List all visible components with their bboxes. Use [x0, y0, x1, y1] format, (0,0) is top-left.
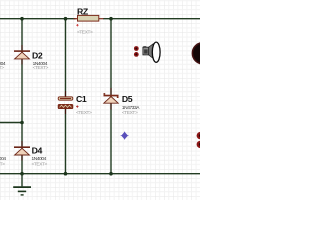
- svg-text:1N4004: 1N4004: [32, 156, 47, 162]
- wire capacitor column upper: [65, 19, 67, 97]
- wire zener column: [110, 19, 112, 174]
- wire top rail left: [0, 18, 76, 20]
- zener diode D5: [104, 88, 119, 110]
- svg-text:<TEXT>: <TEXT>: [33, 65, 49, 71]
- diode D2: [14, 45, 30, 65]
- svg-text:<TEXT>: <TEXT>: [0, 161, 5, 167]
- junction (65.5,18.7): [64, 17, 68, 21]
- svg-text:C1: C1: [76, 94, 87, 104]
- ground: [13, 174, 31, 195]
- marker + C1: [76, 105, 78, 107]
- svg-text:<TEXT>: <TEXT>: [77, 30, 93, 36]
- wire diode column: [21, 19, 23, 174]
- buzzer body right edge: [192, 43, 213, 64]
- svg-text:RZ: RZ: [77, 6, 89, 16]
- svg-text:1N4733A: 1N4733A: [122, 105, 140, 111]
- junction (111,18.7): [109, 17, 113, 21]
- junction (111,173.7): [109, 172, 113, 176]
- capacitor C1: [58, 91, 73, 114]
- speaker LS1 icon: [143, 42, 160, 62]
- terminal dot right 1: [197, 132, 204, 139]
- wire top rail right: [103, 18, 200, 20]
- speaker pin dot 1: [134, 46, 139, 51]
- marker + RZ: [76, 24, 78, 26]
- svg-text:D2: D2: [32, 50, 43, 60]
- wire AC input mid-left: [0, 122, 22, 124]
- junction (65.5,173.7): [64, 172, 68, 176]
- terminal dot right 2: [197, 141, 204, 148]
- wire capacitor column lower: [65, 109, 67, 174]
- resistor RZ: [74, 15, 104, 21]
- svg-text:<TEXT>: <TEXT>: [122, 110, 138, 116]
- junction (22,18.7): [20, 17, 24, 21]
- svg-text:D5: D5: [122, 94, 133, 104]
- diode D4: [14, 141, 30, 161]
- svg-text:<TEXT>: <TEXT>: [76, 110, 92, 116]
- svg-text:D4: D4: [32, 146, 43, 156]
- svg-text:1N4004: 1N4004: [0, 156, 6, 162]
- junction (22,173.7): [20, 172, 24, 176]
- wire bottom rail: [0, 173, 200, 175]
- junction (22,122.5): [20, 121, 24, 125]
- speaker pin dot 2: [134, 52, 139, 57]
- svg-text:<TEXT>: <TEXT>: [0, 65, 4, 71]
- marker origin blue diamond: [121, 132, 129, 140]
- svg-text:<TEXT>: <TEXT>: [32, 161, 48, 167]
